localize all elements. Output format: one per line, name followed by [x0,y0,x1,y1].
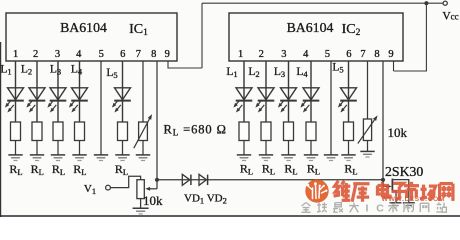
LED emission arrows [28,100,33,106]
wire IC2 pin5 to ground [330,61,332,155]
svg-text:I: I [366,202,369,214]
svg-text:C: C [376,202,384,214]
svg-text:8: 8 [374,49,379,60]
svg-text:WWW.DZSC.COM: WWW.DZSC.COM [382,196,446,203]
LED emission arrows [302,100,307,106]
LED triangle [72,88,88,100]
diode VD1 [182,174,190,185]
svg-text:8: 8 [151,49,156,60]
wire [288,61,290,122]
transistor Q1 2SK30 JFET [383,185,388,187]
wire [36,61,38,122]
wire diode line [157,179,383,181]
wire [243,61,245,122]
svg-text:9: 9 [388,49,393,60]
LED emission arrows [49,100,54,106]
resistor RL (IC1 L5) [118,122,128,141]
LED emission arrows [6,100,11,106]
Vcc terminal [443,1,447,5]
wire [57,61,59,122]
svg-text:4: 4 [303,49,309,60]
svg-text:7: 7 [136,49,141,60]
scan border left [0,42,2,217]
ground [304,154,318,156]
svg-text:9: 9 [165,49,170,60]
LED triangle [281,88,297,100]
LED emission arrows [279,100,284,106]
diode VD2 [199,174,207,185]
LED L4 (IC2) column [310,61,312,155]
svg-text:L5: L5 [106,67,117,80]
wire [348,61,350,122]
LED emission arrows [235,100,240,106]
LED triangle [8,88,24,100]
resistor RL (IC2 L5) [344,122,354,141]
input terminal V1 [106,185,111,190]
wire [15,61,17,122]
ground [72,154,86,156]
ground (drain) [403,202,415,204]
resistor RL (IC2 col3) [284,122,294,141]
wire IC1 pin7 [142,61,144,155]
svg-text:L3: L3 [50,64,61,77]
ground (source) [389,202,401,204]
ground [115,154,129,156]
svg-text:L1: L1 [0,64,11,77]
LED triangle [115,88,131,100]
watermark text weiku dianzi shichang wang [334,181,453,202]
ground [360,150,374,152]
wire IC2 pin8 down [382,61,384,186]
wire IC2 pin9 to Vcc [425,3,427,71]
resistor RL (IC2 col4) [306,122,316,141]
LED emission arrows [113,100,118,106]
LED triangle [258,88,274,100]
svg-text:4: 4 [76,49,82,60]
wire [122,61,124,122]
wire pot to ground [140,199,142,208]
resistor RL (IC2 col2) [261,122,271,141]
svg-text:3: 3 [55,49,60,60]
LED L3 (IC1) column [57,61,59,155]
LED triangle [29,88,45,100]
LED L1 (IC1) column [15,61,17,155]
LED emission arrows [257,100,262,106]
resistor RL (IC1 col1) [11,122,21,141]
resistor RL (IC1 col2) [32,122,42,141]
wire [310,61,312,122]
svg-text:L4: L4 [296,66,308,79]
LED L3 (IC2) column [288,61,290,155]
svg-text:L2: L2 [248,66,259,79]
svg-text:10k: 10k [143,193,163,208]
ground [341,154,355,156]
svg-text:V1: V1 [84,183,96,196]
svg-text:L1: L1 [226,66,237,79]
resistor RL (IC1 col4) [75,122,85,141]
wire IC1 pin5 to ground [100,61,102,155]
svg-text:L5: L5 [332,62,343,75]
LED L1 (IC2) column [243,61,245,155]
svg-text:3: 3 [281,49,286,60]
svg-text:6: 6 [346,49,351,60]
svg-text:Vcc: Vcc [442,11,458,23]
LED emission arrows [339,100,344,106]
ground [8,154,22,156]
LED triangle [236,88,252,100]
watermark gray slogan row [301,202,446,214]
svg-text:2: 2 [259,49,264,60]
wire IC1 pin8 down [156,61,158,189]
LED triangle [50,88,66,100]
svg-text:1: 1 [13,49,18,60]
svg-text:BA6104: BA6104 [287,20,334,35]
node junction dot (pin8/diode/gate) [381,178,385,182]
svg-text:1: 1 [238,49,243,60]
LED L2 (IC2) column [265,61,267,155]
LED L5 (IC1) column [122,61,124,155]
LED emission arrows [70,100,75,106]
ground [51,154,65,156]
potentiometer 10k (V1 input) [137,180,144,199]
LED triangle [341,88,357,100]
ground [237,154,251,156]
svg-text:L4: L4 [71,64,83,77]
node junction dot (pin8/diode line) [155,178,159,182]
Vcc rail [202,2,443,4]
node junction dot Vcc/IC2 riser [424,1,428,5]
wire IC2 pin7 [367,61,369,151]
ground [259,154,273,156]
op-amp U1 BA6104 IC1 box [6,13,177,61]
ground [30,154,44,156]
svg-text:2SK30: 2SK30 [385,164,423,179]
wire [79,61,81,122]
wire [265,61,267,122]
svg-text:10k: 10k [388,125,408,140]
potentiometer 10k (IC2 pin7) [363,119,371,141]
ground [281,154,295,156]
op-amp U2 BA6104 IC2 box [229,13,403,61]
potentiometer wiper arrow [150,188,157,190]
wire IC1 pin9 to Vcc [201,3,203,68]
svg-text:5: 5 [325,49,330,60]
ground [94,154,108,156]
resistor RL (IC1 col3) [53,122,63,141]
svg-text:L3: L3 [274,66,285,79]
svg-text:2: 2 [33,49,38,60]
ground [324,154,338,156]
svg-text:6: 6 [120,49,125,60]
LED L2 (IC1) column [36,61,38,155]
svg-text:5: 5 [99,49,104,60]
LED L5 (IC2) column [348,61,350,155]
LED L4 (IC1) column [79,61,81,155]
scan border bottom [0,215,460,217]
svg-text:VD1 VD2: VD1 VD2 [184,193,227,206]
potentiometer (IC1 pin7) [139,122,148,141]
svg-text:L2: L2 [21,64,32,77]
ground [136,154,150,156]
watermark logo circle [305,179,328,202]
ground [133,207,149,209]
svg-text:7: 7 [360,49,365,60]
resistor RL (IC2 col1) [239,122,249,141]
svg-text:BA6104: BA6104 [60,20,107,35]
LED triangle [303,88,319,100]
